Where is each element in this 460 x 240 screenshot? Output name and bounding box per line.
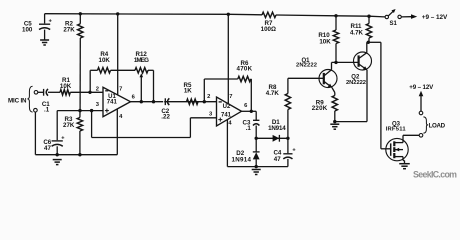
svg-text:U2: U2 <box>223 104 231 110</box>
svg-text:LOAD: LOAD <box>429 122 446 129</box>
svg-text:7: 7 <box>229 94 232 100</box>
svg-text:27K: 27K <box>63 122 75 129</box>
svg-text:4.7K: 4.7K <box>350 29 364 36</box>
svg-text:741: 741 <box>107 99 118 105</box>
svg-text:.22: .22 <box>161 114 170 121</box>
svg-text:220K: 220K <box>312 105 328 112</box>
svg-text:2N2222: 2N2222 <box>296 62 317 68</box>
svg-text:7: 7 <box>119 86 122 92</box>
svg-text:47: 47 <box>274 156 281 163</box>
svg-text:100: 100 <box>22 27 33 34</box>
svg-text:.1: .1 <box>246 125 252 132</box>
svg-text:470K: 470K <box>237 65 253 72</box>
svg-text:2: 2 <box>96 86 99 92</box>
svg-text:3: 3 <box>96 102 100 108</box>
svg-text:+9 – 12V: +9 – 12V <box>422 14 448 21</box>
svg-text:+: + <box>61 136 65 142</box>
svg-text:4: 4 <box>119 114 123 120</box>
svg-text:.1: .1 <box>44 107 50 114</box>
svg-text:1N914: 1N914 <box>268 125 286 132</box>
svg-text:27K: 27K <box>63 26 75 33</box>
svg-text:4: 4 <box>228 121 232 127</box>
svg-text:6: 6 <box>132 94 136 100</box>
svg-text:2N2222: 2N2222 <box>346 80 366 86</box>
svg-text:4.7K: 4.7K <box>266 90 280 97</box>
svg-text:10K: 10K <box>60 83 72 90</box>
svg-text:IRF511: IRF511 <box>386 127 407 133</box>
svg-text:+9 – 12V: +9 – 12V <box>409 84 434 91</box>
svg-text:1N914: 1N914 <box>231 156 251 163</box>
svg-text:1K: 1K <box>184 88 192 95</box>
svg-text:SeekIC.com: SeekIC.com <box>413 170 457 180</box>
svg-text:741: 741 <box>221 112 232 118</box>
svg-text:2: 2 <box>207 94 210 100</box>
svg-text:6: 6 <box>244 103 248 109</box>
svg-text:1MEG: 1MEG <box>134 57 149 64</box>
svg-text:MIC IN: MIC IN <box>8 97 27 104</box>
svg-text:S1: S1 <box>390 21 398 27</box>
svg-text:+: + <box>292 148 296 154</box>
svg-text:10K: 10K <box>99 57 111 64</box>
svg-text:10K: 10K <box>319 39 331 46</box>
svg-text:47: 47 <box>44 145 51 152</box>
svg-text:+: + <box>49 19 53 25</box>
svg-text:3: 3 <box>209 111 213 117</box>
svg-text:100Ω: 100Ω <box>261 26 276 33</box>
